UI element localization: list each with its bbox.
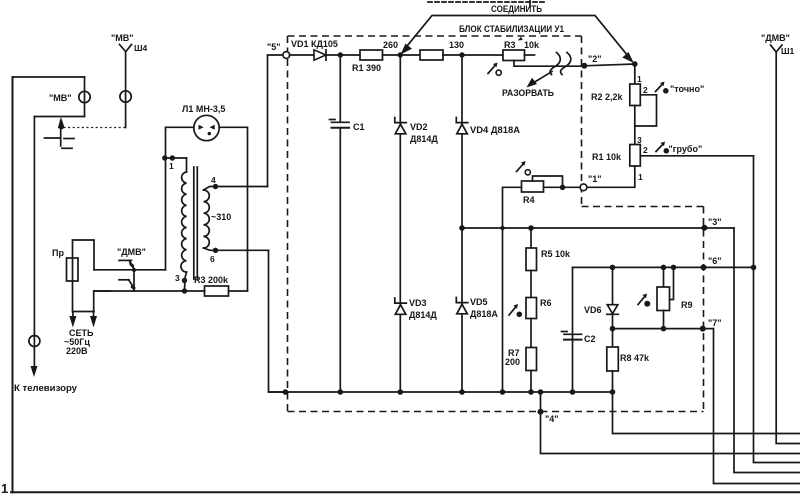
svg-text:R3: R3 xyxy=(504,40,516,50)
DMV switch lower contact tick xyxy=(119,279,129,281)
wire 7 bus xyxy=(613,328,714,330)
svg-text:R2 2,2k: R2 2,2k xyxy=(591,92,624,102)
wire pin4 to node5 riser xyxy=(216,186,268,188)
DMV switch upper contact tick xyxy=(119,259,132,261)
svg-text:"ДМВ": "ДМВ" xyxy=(117,247,146,257)
R6 adjust arrowhead xyxy=(514,304,519,309)
svg-text:VD6: VD6 xyxy=(584,305,602,315)
bus dot R4 xyxy=(500,389,506,395)
wire DMV switch to transformer riser xyxy=(134,269,166,271)
node 6 terminal dot xyxy=(701,264,707,270)
dashed block outline right edge lower xyxy=(703,207,705,412)
svg-text:"грубо": "грубо" xyxy=(669,144,703,154)
bus dot C2 xyxy=(570,389,576,395)
junction dot node3 bus left xyxy=(459,225,465,231)
diode VD6 wire upper xyxy=(612,267,614,304)
break mark arc a xyxy=(550,53,560,75)
antenna DMV feed wire xyxy=(776,52,800,444)
wire VD1 to C1 node xyxy=(326,54,360,56)
mains left prong arrowhead xyxy=(69,316,76,328)
svg-text:R1 390: R1 390 xyxy=(352,63,381,73)
DMV switch lower arm blob xyxy=(131,285,136,292)
tochno adjust arrowhead xyxy=(660,82,665,87)
svg-text:R1 10k: R1 10k xyxy=(592,152,622,162)
wire R5 to R6 xyxy=(530,271,532,298)
bus dot dashed crossing xyxy=(283,389,289,395)
soedinit right arrowhead xyxy=(622,52,634,63)
diode VD1 cathode bar xyxy=(325,50,327,60)
junction dot pin1 b xyxy=(170,155,175,160)
bus dot R8 xyxy=(610,389,616,395)
resistor R9 body xyxy=(657,287,670,311)
zener VD2 symbol xyxy=(395,118,407,134)
R3 adjust arrowhead xyxy=(493,63,498,68)
svg-text:260: 260 xyxy=(383,40,398,50)
wire R8 bottom lead xyxy=(612,371,614,392)
svg-text:3: 3 xyxy=(637,135,642,145)
junction dot R9 wiper top xyxy=(671,265,677,271)
dashed block outline step edge xyxy=(582,206,704,208)
resistor R1 10k body xyxy=(630,145,641,167)
junction dot C1 top xyxy=(338,52,343,57)
wire to node 130 xyxy=(443,54,503,56)
svg-text:БЛОК СТАБИЛИЗАЦИИ У1: БЛОК СТАБИЛИЗАЦИИ У1 xyxy=(459,24,565,35)
junction dot R4 right xyxy=(560,185,566,191)
pin3 dot upper xyxy=(182,278,187,283)
secondary bottom hook to pin6 xyxy=(204,248,216,250)
TV arrowhead xyxy=(31,366,38,377)
svg-text:3: 3 xyxy=(175,273,180,283)
wire pin1 to primary top xyxy=(165,157,187,159)
pin4 dot xyxy=(213,184,218,189)
soedinit bracket line xyxy=(405,16,628,57)
dotted wire MV switch to Sh4 xyxy=(64,127,126,129)
resistor R5 body xyxy=(526,248,537,271)
R4 wiper loop xyxy=(533,176,563,187)
R3 adjust circle xyxy=(496,70,501,75)
R2 wiper lead xyxy=(640,94,656,96)
lamp pin right mark xyxy=(210,125,215,130)
svg-text:~310: ~310 xyxy=(211,212,231,222)
wire R6 to R7 xyxy=(530,319,532,348)
R2 wiper return path xyxy=(635,95,657,126)
scan artifact top tick xyxy=(529,0,531,7)
tochno adjust dot xyxy=(663,88,669,94)
lamp bottom pin dot xyxy=(208,132,211,135)
wire grubo riser down xyxy=(754,156,800,463)
mains plug bar xyxy=(73,311,95,313)
svg-text:200: 200 xyxy=(505,357,520,367)
R3 right open lead xyxy=(525,54,535,56)
antenna DMV symbol xyxy=(771,45,783,52)
resistor R3 10k body xyxy=(503,50,525,61)
connector to TV circle xyxy=(29,336,40,347)
svg-text:Пр: Пр xyxy=(52,248,64,258)
zener VD2 line upper xyxy=(399,55,401,124)
svg-text:Ш4: Ш4 xyxy=(134,43,148,53)
svg-text:VD4 Д818А: VD4 Д818А xyxy=(470,125,521,135)
DMV switch junction vertical xyxy=(133,269,135,292)
R9 adjust arrowhead xyxy=(643,294,648,299)
node 1 terminal xyxy=(580,184,587,191)
svg-text:"точно": "точно" xyxy=(670,84,704,94)
R3 adjust arrow tip detached xyxy=(518,37,523,41)
resistor R7 body xyxy=(526,348,537,371)
wire mains to primary pin3 xyxy=(94,290,185,292)
tochno adjust arrow xyxy=(656,84,664,92)
grubo adjust arrowhead xyxy=(661,142,666,147)
TV arrow stem xyxy=(33,117,35,370)
MV switch arm xyxy=(60,121,62,146)
capacitor C2 polarity tick xyxy=(562,331,568,333)
wire to DMV switch upper xyxy=(94,269,134,271)
lamp left lead xyxy=(166,127,194,158)
wire grubo to right riser xyxy=(657,155,754,157)
lamp right lead xyxy=(219,127,247,291)
svg-text:1: 1 xyxy=(169,161,174,171)
transformer T1 primary lead bottom xyxy=(185,272,187,291)
junction dot R4 cross xyxy=(500,226,504,230)
R4 adjust arrow xyxy=(517,163,525,172)
svg-text:"ДМВ": "ДМВ" xyxy=(761,33,790,43)
zener VD4 symbol xyxy=(456,118,468,134)
lamp-transformer vertical to DMV switch xyxy=(165,158,167,270)
resistor unlabeled body xyxy=(420,50,443,60)
svg-text:1: 1 xyxy=(638,172,643,182)
svg-text:2: 2 xyxy=(643,85,648,95)
junction dot VD6 node7 xyxy=(610,326,616,332)
fuse Pr body xyxy=(67,258,79,281)
svg-text:"1": "1" xyxy=(588,174,602,184)
resistor R2 2.2k body xyxy=(630,84,641,106)
svg-text:R4: R4 xyxy=(523,195,535,205)
capacitor C1 wire lower xyxy=(339,128,341,392)
MV switch arm arrowhead xyxy=(58,117,65,130)
connector "MV" X1 xyxy=(79,91,90,102)
svg-text:VD2: VD2 xyxy=(410,122,428,132)
R9 adjust arrow xyxy=(638,296,646,305)
R3 bottom lead xyxy=(514,61,584,67)
junction dot R9 top xyxy=(661,265,667,271)
node 7 terminal dot xyxy=(700,326,706,332)
svg-text:1: 1 xyxy=(1,481,8,496)
svg-text:"МВ": "МВ" xyxy=(49,93,72,103)
R4 left lead xyxy=(503,187,522,392)
svg-text:220В: 220В xyxy=(66,346,88,356)
svg-text:"7": "7" xyxy=(708,318,722,328)
svg-text:"6": "6" xyxy=(708,256,722,266)
transformer core line b xyxy=(196,167,198,279)
transformer T1 primary lead top xyxy=(186,158,188,172)
capacitor C1 polarity tick xyxy=(330,119,336,121)
MV box right edge xyxy=(84,77,86,117)
svg-text:СОЕДИНИТЬ: СОЕДИНИТЬ xyxy=(491,4,542,14)
svg-text:Д818А: Д818А xyxy=(470,309,498,319)
wire node1 to R4 xyxy=(563,186,581,188)
razorvat arrow line xyxy=(529,72,552,86)
transformer T1 primary winding xyxy=(181,172,187,272)
svg-text:1: 1 xyxy=(637,74,642,84)
svg-text:10k: 10k xyxy=(524,40,540,50)
wire node3 riser down xyxy=(734,228,800,473)
svg-text:2: 2 xyxy=(643,145,648,155)
break mark arc b xyxy=(561,53,571,75)
diode VD6 symbol xyxy=(607,305,619,315)
svg-text:6: 6 xyxy=(210,254,215,264)
node 5 terminal xyxy=(283,52,290,59)
scan artifact top line xyxy=(428,1,546,3)
R9 adjust dot xyxy=(644,301,650,307)
bus dot C1 xyxy=(338,389,344,395)
pin6 dot xyxy=(213,248,218,253)
R4 adjust circle xyxy=(525,170,530,175)
R1b bottom lead xyxy=(587,166,635,187)
resistor R3 200k body xyxy=(205,286,229,296)
DMV switch upper arm arrowhead xyxy=(128,259,134,269)
junction dot R2 top xyxy=(632,61,638,67)
wire R5 top lead xyxy=(530,228,532,248)
svg-text:"4": "4" xyxy=(545,414,559,424)
svg-text:C2: C2 xyxy=(584,334,596,344)
MV box bottom wire xyxy=(35,116,85,118)
junction dot DMV upper xyxy=(132,268,136,272)
transformer T1 secondary winding xyxy=(204,190,210,248)
wire R1 to node 260 xyxy=(383,54,421,56)
svg-text:VD1 КД105: VD1 КД105 xyxy=(291,39,338,49)
svg-text:Д814Д: Д814Д xyxy=(409,310,437,320)
secondary top hook to pin4 xyxy=(204,187,216,191)
DMV switch lower arm xyxy=(129,281,134,289)
svg-text:130: 130 xyxy=(449,40,464,50)
svg-text:"МВ": "МВ" xyxy=(111,33,134,43)
zener VD3 line lower xyxy=(399,314,401,392)
junction dot node 130 xyxy=(459,52,464,57)
svg-text:К телевизору: К телевизору xyxy=(14,383,77,393)
wire C2 branch vertical xyxy=(572,267,574,392)
svg-text:R5 10k: R5 10k xyxy=(541,249,571,259)
resistor R9 bottom lead xyxy=(663,311,665,329)
bus dot VD5 xyxy=(459,389,465,395)
lamp L1 circle xyxy=(194,115,219,140)
junction dot node 260 xyxy=(398,52,403,57)
diode VD6 wire lower xyxy=(612,314,614,347)
fuse wire vertical xyxy=(72,240,74,312)
svg-text:"2": "2" xyxy=(588,54,602,64)
svg-text:РАЗОРВАТЬ: РАЗОРВАТЬ xyxy=(502,88,554,98)
R4 right lead xyxy=(544,186,563,188)
node 3 terminal dot xyxy=(701,225,707,231)
connector Sh4 circle xyxy=(120,91,131,102)
grubo adjust arrow xyxy=(656,144,664,152)
wire ground exit riser xyxy=(613,392,800,434)
R2 bottom lead xyxy=(634,106,636,145)
capacitor C2 plate top xyxy=(564,333,582,335)
svg-text:R6: R6 xyxy=(540,298,552,308)
zener VD5 line lower xyxy=(461,314,463,392)
svg-text:VD3: VD3 xyxy=(409,298,427,308)
resistor R8 body xyxy=(607,347,619,371)
capacitor C1 wire upper xyxy=(339,55,341,122)
capacitor C2 plate bottom xyxy=(564,339,582,341)
dashed block outline left edge xyxy=(287,36,289,412)
wire node5 riser xyxy=(268,55,287,187)
R6 adjust arrow xyxy=(509,306,517,315)
svg-text:R8 47k: R8 47k xyxy=(620,353,650,363)
svg-text:4: 4 xyxy=(211,175,216,185)
R6 adjust dot xyxy=(517,312,523,318)
antenna MV symbol xyxy=(120,45,132,52)
wire ground riser left xyxy=(269,250,286,392)
svg-text:Д814Д: Д814Д xyxy=(410,134,438,144)
junction dot grubo cross xyxy=(751,265,757,271)
svg-text:R3 200k: R3 200k xyxy=(194,275,229,285)
mains right prong stem xyxy=(93,312,95,320)
wire node7 riser xyxy=(714,329,800,484)
dashed block outline top edge xyxy=(288,35,582,37)
zener VD4-VD5 middle wire xyxy=(461,134,463,304)
MV switch bottom contact tick xyxy=(62,147,72,149)
svg-text:"5": "5" xyxy=(267,42,281,52)
node 4 terminal dot xyxy=(538,409,544,415)
junction dot R5 top xyxy=(528,225,534,231)
mains right prong arrowhead xyxy=(90,316,97,328)
bus dot node4 riser xyxy=(538,389,544,395)
wire pin6 to ground riser xyxy=(216,249,269,251)
diode VD1 KD105 xyxy=(314,50,326,60)
resistor R9 top lead xyxy=(663,267,665,287)
resistor R6 body xyxy=(526,298,537,319)
junction dot R9 bottom xyxy=(661,326,667,332)
capacitor C1 plate top xyxy=(332,121,350,123)
grubo adjust dot xyxy=(664,148,670,154)
zener VD2-VD3 middle wire xyxy=(399,134,401,305)
junction dot VD6 top xyxy=(610,265,616,271)
R9 wiper path xyxy=(670,267,674,299)
wire R3200k left lead xyxy=(185,290,205,292)
frame bottom edge xyxy=(11,491,800,493)
MV box top edge xyxy=(13,76,85,78)
transformer core line a xyxy=(193,167,195,279)
ground bus xyxy=(269,391,613,393)
lamp pin left mark xyxy=(199,125,204,130)
MV switch left contact tick xyxy=(45,137,60,139)
svg-text:Ш1: Ш1 xyxy=(781,46,795,56)
svg-text:VD5: VD5 xyxy=(470,297,488,307)
wire R7 to bus xyxy=(530,371,532,393)
node 2 terminal dot xyxy=(581,63,587,69)
wire node5 to VD1 xyxy=(290,54,315,56)
junction dot pin1 a xyxy=(162,155,167,160)
resistor R1 390 body xyxy=(360,50,383,60)
dashed block outline right edge upper xyxy=(581,36,583,207)
pin3 dot lower xyxy=(182,288,187,293)
razorvat arrowhead xyxy=(527,78,538,88)
bus dot VD3 xyxy=(398,389,404,395)
wire node2 to R2 top xyxy=(584,64,635,84)
dashed block outline bottom edge xyxy=(288,411,704,413)
MV switch right contact tick xyxy=(64,138,74,140)
R1b wiper lead xyxy=(640,155,656,157)
svg-text:"3": "3" xyxy=(708,217,722,227)
antenna MV down wire xyxy=(125,52,127,128)
svg-text:R9: R9 xyxy=(681,300,693,310)
zener VD3 symbol xyxy=(395,298,407,314)
wire 6 bus xyxy=(573,266,754,268)
wire node3 bus xyxy=(462,227,734,229)
capacitor C1 plate bottom xyxy=(332,127,350,129)
wire fuse top corner xyxy=(73,240,95,270)
wire R3200k right lead xyxy=(229,290,248,292)
zener VD5 symbol xyxy=(456,298,468,314)
zener VD4 line upper xyxy=(461,55,463,124)
R4 adjust arrowhead xyxy=(521,161,526,166)
mains right prong riser xyxy=(94,291,110,312)
svg-text:C1: C1 xyxy=(353,122,365,132)
svg-text:Л1 МН-3,5: Л1 МН-3,5 xyxy=(182,104,225,114)
frame left edge xyxy=(12,77,14,492)
mains left prong stem xyxy=(72,312,74,320)
resistor R4 body xyxy=(522,181,544,192)
R3 adjust arrow xyxy=(488,65,496,74)
DMV switch upper arm xyxy=(130,262,134,270)
wire node4 riser xyxy=(541,392,800,454)
soedinit left arrowhead xyxy=(401,44,413,55)
bus dot R7 xyxy=(528,389,534,395)
